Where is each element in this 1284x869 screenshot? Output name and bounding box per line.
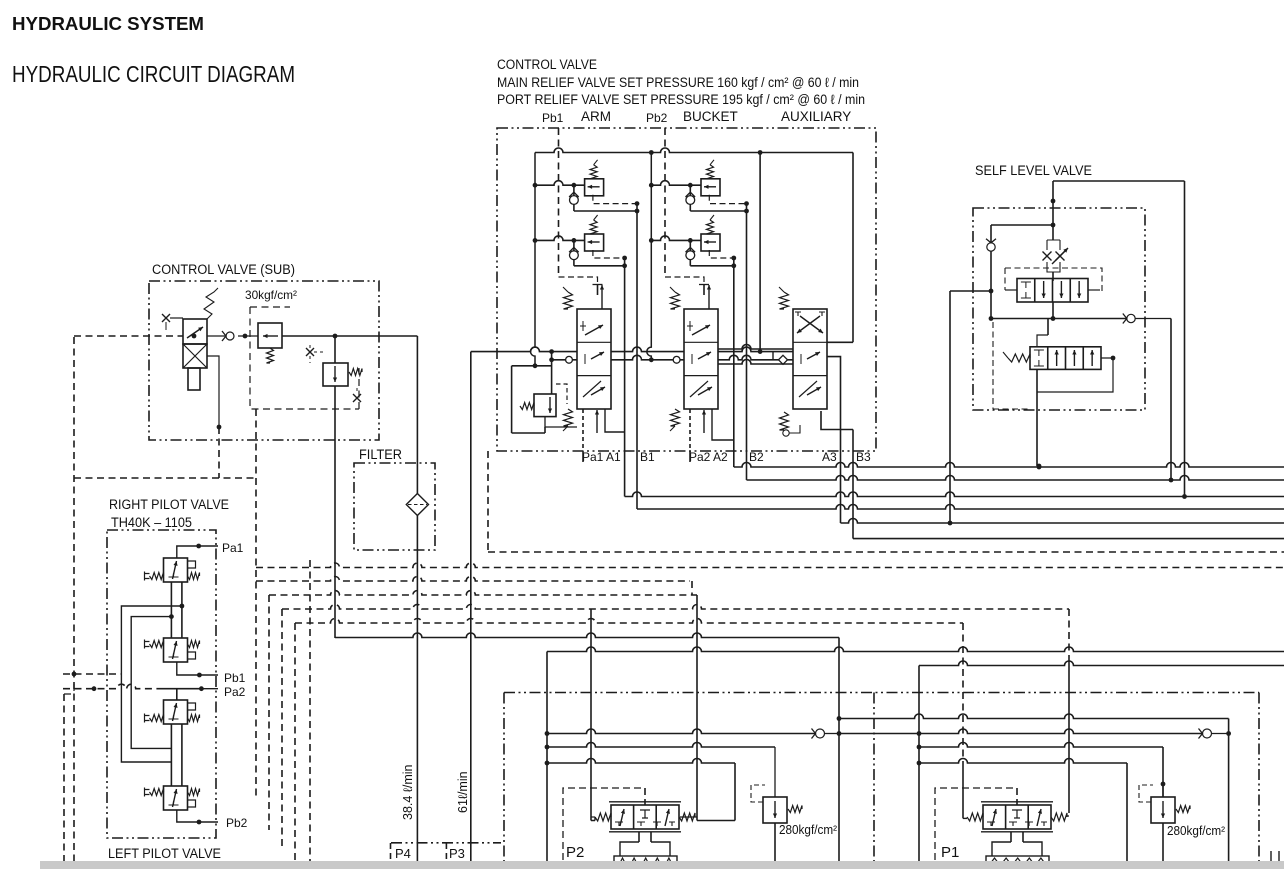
svg-text:Pb1: Pb1 bbox=[224, 671, 246, 685]
svg-text:P4: P4 bbox=[395, 846, 411, 861]
svg-text:Pb1: Pb1 bbox=[542, 111, 564, 125]
svg-text:TH40K – 1105: TH40K – 1105 bbox=[111, 515, 192, 530]
svg-text:38.4 ℓ/min: 38.4 ℓ/min bbox=[401, 764, 415, 820]
svg-text:61ℓ/min: 61ℓ/min bbox=[456, 771, 470, 813]
svg-text:Pa1 A1: Pa1 A1 bbox=[582, 450, 621, 464]
svg-text:B1: B1 bbox=[640, 450, 655, 464]
svg-text:A3: A3 bbox=[822, 450, 837, 464]
svg-text:RIGHT PILOT VALVE: RIGHT PILOT VALVE bbox=[109, 497, 229, 512]
svg-text:Pb2: Pb2 bbox=[226, 816, 248, 830]
svg-text:P3: P3 bbox=[449, 846, 465, 861]
svg-text:B3: B3 bbox=[856, 450, 871, 464]
svg-text:PORT RELIEF VALVE SET PRESSURE: PORT RELIEF VALVE SET PRESSURE 195 kgf /… bbox=[497, 92, 865, 107]
svg-text:280kgf/cm²: 280kgf/cm² bbox=[779, 823, 837, 837]
svg-text:MAIN RELIEF VALVE SET PRESSURE: MAIN RELIEF VALVE SET PRESSURE 160 kgf /… bbox=[497, 75, 859, 90]
svg-text:ARM: ARM bbox=[581, 109, 611, 124]
svg-text:CONTROL VALVE: CONTROL VALVE bbox=[497, 57, 597, 72]
svg-text:LEFT PILOT VALVE: LEFT PILOT VALVE bbox=[108, 846, 221, 861]
svg-text:Pa2: Pa2 bbox=[224, 685, 246, 699]
svg-text:BUCKET: BUCKET bbox=[683, 109, 738, 124]
svg-text:B2: B2 bbox=[749, 450, 764, 464]
svg-text:280kgf/cm²: 280kgf/cm² bbox=[1167, 824, 1225, 838]
svg-text:Pa1: Pa1 bbox=[222, 541, 244, 555]
svg-text:P2: P2 bbox=[566, 844, 584, 861]
svg-text:30kgf/cm²: 30kgf/cm² bbox=[245, 288, 297, 302]
svg-text:P1: P1 bbox=[941, 844, 959, 861]
svg-text:CONTROL VALVE (SUB): CONTROL VALVE (SUB) bbox=[152, 262, 295, 277]
svg-text:SELF LEVEL VALVE: SELF LEVEL VALVE bbox=[975, 163, 1092, 178]
svg-text:Pa2 A2: Pa2 A2 bbox=[689, 450, 728, 464]
svg-text:FILTER: FILTER bbox=[359, 447, 402, 462]
svg-text:Pb2: Pb2 bbox=[646, 111, 668, 125]
svg-text:HYDRAULIC CIRCUIT DIAGRAM: HYDRAULIC CIRCUIT DIAGRAM bbox=[12, 61, 295, 87]
svg-text:AUXILIARY: AUXILIARY bbox=[781, 109, 851, 124]
svg-text:HYDRAULIC SYSTEM: HYDRAULIC SYSTEM bbox=[12, 13, 204, 34]
